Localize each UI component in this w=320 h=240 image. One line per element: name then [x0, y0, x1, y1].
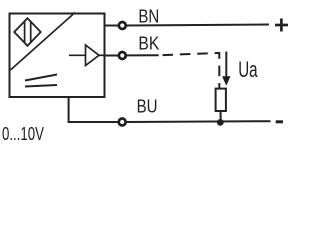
Ua arrow shaft — [225, 52, 227, 79]
amplifier output lead — [99, 54, 105, 56]
Ua arrowhead — [222, 76, 230, 86]
wire BN to plus — [127, 25, 269, 26]
terminal BN — [119, 22, 126, 29]
svg-text:Ua: Ua — [238, 57, 258, 82]
wire BK dashed segment with elbow drop — [163, 53, 220, 89]
analog output symbol line 2 — [25, 85, 57, 87]
svg-text:0...10V: 0...10V — [2, 123, 44, 144]
op-amp triangle — [86, 45, 100, 66]
resistor load — [216, 89, 226, 111]
amplifier input lead — [69, 54, 86, 56]
terminal BK — [119, 52, 126, 59]
analog output symbol line 1 — [25, 75, 57, 81]
svg-text:BU: BU — [137, 97, 158, 117]
junction dot — [217, 119, 224, 126]
plus symbol — [275, 24, 288, 27]
wire BU to minus — [127, 120, 271, 123]
wire below resistor — [220, 111, 222, 122]
wire from box bottom drop — [69, 97, 118, 122]
diamond inner line left — [24, 21, 26, 42]
terminal BU — [119, 119, 126, 126]
wire BN from box to terminal — [105, 25, 118, 27]
svg-text:BN: BN — [138, 7, 159, 27]
wire BK from box to terminal — [105, 55, 118, 57]
sensor body box — [10, 14, 105, 98]
svg-text:BK: BK — [138, 33, 159, 53]
inductive sensor diamond — [14, 18, 41, 46]
wire BK solid segment — [127, 54, 159, 56]
diagonal divider — [10, 13, 75, 71]
minus symbol — [276, 120, 283, 123]
diamond inner line right — [30, 22, 32, 43]
